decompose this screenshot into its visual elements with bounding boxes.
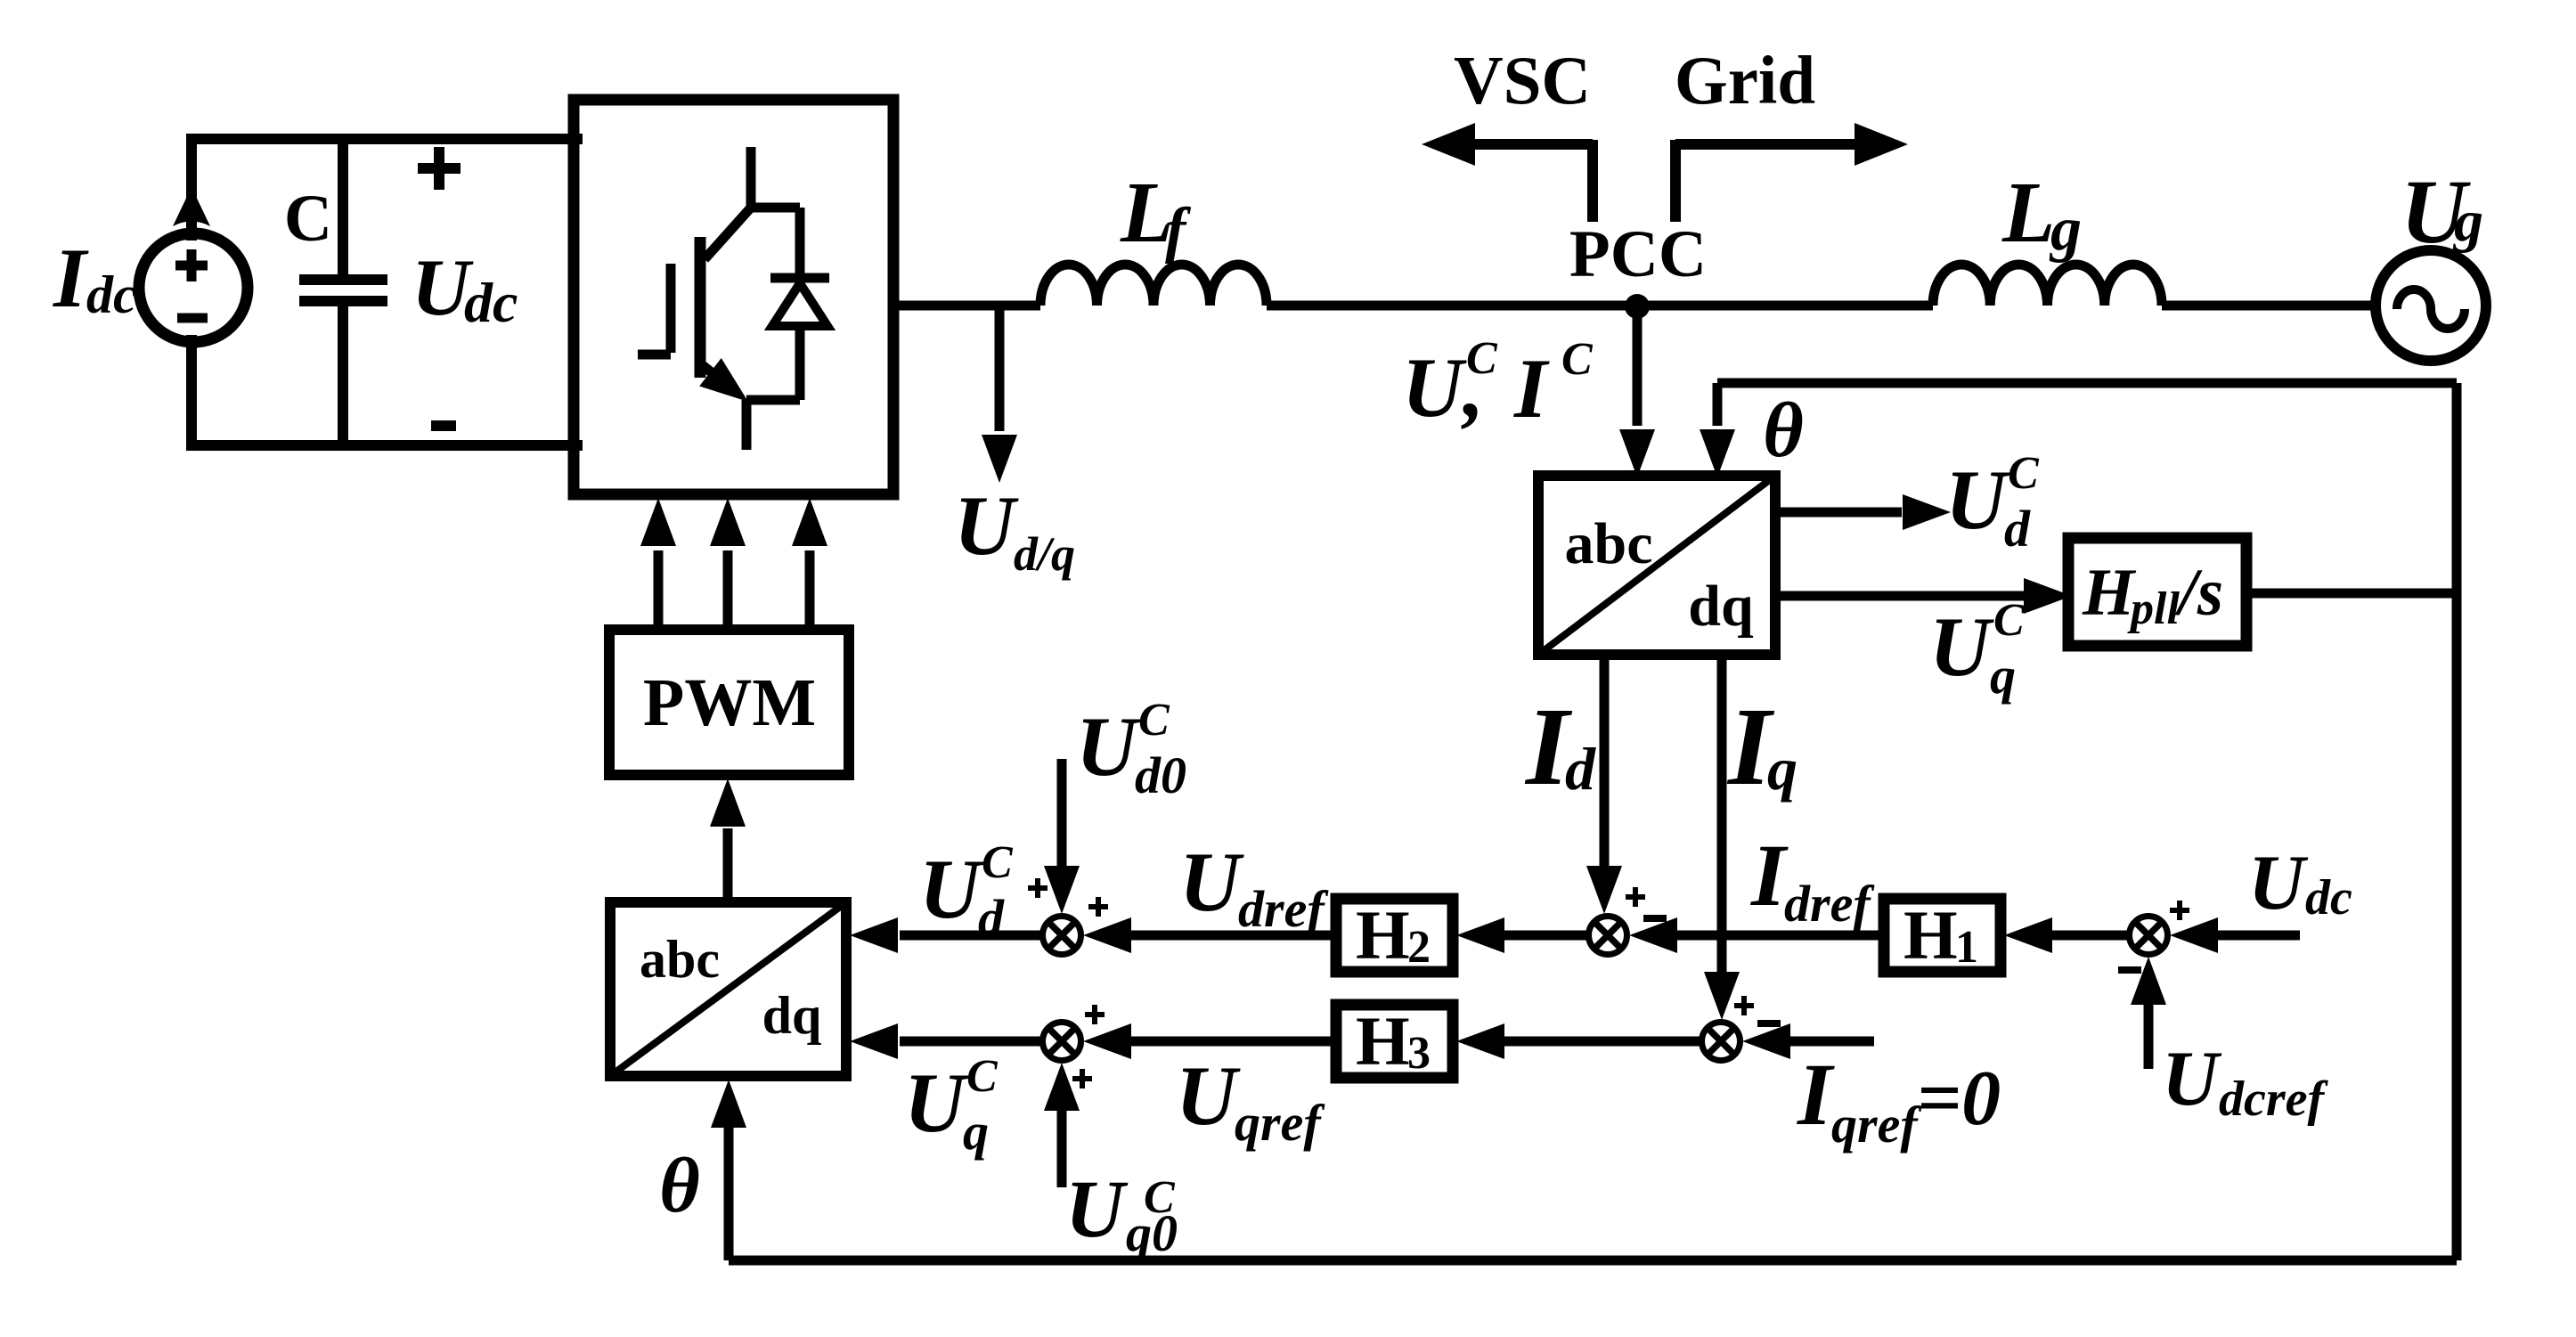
node PCC bbox=[1625, 294, 1650, 319]
svg-text:PCC: PCC bbox=[1569, 217, 1707, 291]
svg-text:=0: =0 bbox=[1917, 1056, 2001, 1142]
svg-text:U: U bbox=[1176, 1048, 1241, 1143]
label Idc bbox=[53, 231, 137, 325]
wire Lf to Lg bbox=[1267, 301, 1933, 311]
label plus J1 right bbox=[1088, 897, 1108, 917]
abc/dq transform modulator bbox=[610, 902, 846, 1076]
label plus J1 left bbox=[1028, 878, 1048, 898]
arrow abcdq to PWM bbox=[723, 828, 733, 902]
svg-text:C: C bbox=[982, 837, 1014, 888]
wire feedback theta rise bbox=[724, 1128, 734, 1260]
wire branch Udq bbox=[995, 306, 1005, 431]
svg-text:U: U bbox=[1076, 699, 1141, 794]
svg-text:C: C bbox=[966, 1051, 999, 1102]
gate arrow 1 PWM to VSC bbox=[654, 550, 664, 630]
wire dc left upper bbox=[186, 139, 197, 235]
svg-text:d: d bbox=[2004, 500, 2031, 558]
inductor Lf bbox=[1040, 265, 1267, 306]
svg-text:VSC: VSC bbox=[1454, 42, 1591, 118]
svg-text:dref: dref bbox=[1238, 880, 1329, 938]
summing junction J3 bbox=[1589, 917, 1627, 955]
svg-text:/s: /s bbox=[2174, 556, 2223, 630]
wire Hpll out bbox=[2246, 589, 2457, 599]
abc/dq transform PLL input bbox=[1538, 476, 1775, 655]
svg-text:g: g bbox=[2049, 195, 2082, 264]
label minus J5 bbox=[2118, 966, 2141, 974]
arrow VSC direction bbox=[1422, 123, 1593, 222]
label minus J4 bbox=[1757, 1020, 1781, 1027]
svg-text:I: I bbox=[1513, 341, 1550, 436]
svg-text:U: U bbox=[904, 1056, 969, 1150]
arrow J3 to H2 bbox=[1504, 931, 1588, 941]
gate arrow 3 PWM to VSC bbox=[805, 550, 815, 630]
svg-text:1: 1 bbox=[1955, 922, 1978, 973]
label plus J3 bbox=[1626, 887, 1645, 907]
label Lf bbox=[1120, 165, 1192, 265]
block PWM bbox=[609, 630, 849, 775]
wire theta feedback top bbox=[1717, 379, 2457, 388]
svg-text:U: U bbox=[1065, 1163, 1129, 1254]
arrow Udc into J5 bbox=[2218, 931, 2300, 941]
svg-text:C: C bbox=[2008, 448, 2040, 499]
label minus Udc bbox=[431, 420, 456, 431]
svg-text:C: C bbox=[1993, 595, 2026, 646]
svg-text:U: U bbox=[1179, 835, 1244, 929]
svg-text:C: C bbox=[1466, 333, 1498, 384]
label plus Udc bbox=[418, 147, 461, 190]
gate arrow 2 PWM to VSC bbox=[723, 550, 733, 630]
label plus J2 bottom bbox=[1072, 1069, 1092, 1088]
output Iq wire bbox=[1717, 655, 1727, 975]
arrow Grid direction bbox=[1675, 123, 1908, 222]
capacitor C bbox=[299, 139, 387, 445]
arrow Uq0 into J2 bbox=[1057, 1111, 1067, 1187]
block Hpll/s bbox=[2068, 538, 2246, 646]
svg-text:θ: θ bbox=[1763, 387, 1804, 474]
label Ud0C bbox=[1076, 695, 1186, 804]
svg-text:d: d bbox=[1565, 735, 1596, 803]
arrow Iqref into J4 bbox=[1790, 1037, 1874, 1047]
label Id bbox=[1524, 686, 1596, 809]
svg-text:U: U bbox=[954, 478, 1019, 573]
wire feedback bottom bbox=[729, 1256, 2457, 1266]
wire dc left lower bbox=[186, 340, 197, 445]
arrow H3 to J2 bbox=[1129, 1037, 1336, 1047]
transistor IGBT bbox=[638, 147, 800, 450]
svg-text:abc: abc bbox=[640, 930, 720, 989]
label plus J4 bbox=[1734, 996, 1754, 1015]
svg-text:qref: qref bbox=[1831, 1096, 1922, 1154]
label plus J5 bbox=[2170, 901, 2189, 920]
svg-text:Grid: Grid bbox=[1675, 42, 1815, 118]
arrow Ud0 into J1 bbox=[1057, 759, 1067, 866]
svg-text:dq: dq bbox=[1688, 574, 1754, 639]
svg-text:dc: dc bbox=[464, 271, 518, 334]
svg-text:PWM: PWM bbox=[643, 665, 816, 740]
label Udref bbox=[1179, 835, 1329, 938]
label Iqref=0 bbox=[1797, 1045, 2001, 1154]
svg-text:2: 2 bbox=[1407, 922, 1431, 973]
summing junction J2 bbox=[1043, 1023, 1081, 1061]
svg-text:dc: dc bbox=[2305, 870, 2352, 925]
label minus J3 bbox=[1643, 915, 1667, 922]
arrow Udq down bbox=[982, 435, 1017, 483]
svg-text:abc: abc bbox=[1565, 511, 1653, 576]
output UqC to Hpll bbox=[1775, 591, 2024, 601]
block H3 bbox=[1336, 1002, 1453, 1080]
wire dc top bbox=[192, 134, 577, 144]
arrow J1 to abcdq bbox=[900, 931, 1042, 941]
arrow Udcref into J5 bbox=[2144, 1005, 2154, 1069]
block H1 bbox=[1884, 896, 2001, 974]
svg-text:I: I bbox=[53, 231, 89, 325]
svg-text:H: H bbox=[1356, 1002, 1410, 1080]
svg-text:C: C bbox=[1561, 334, 1594, 385]
svg-text:d0: d0 bbox=[1135, 746, 1186, 804]
svg-text:U: U bbox=[919, 842, 984, 936]
label Udcref bbox=[2162, 1036, 2329, 1127]
svg-text:dc: dc bbox=[86, 265, 137, 324]
svg-text:L: L bbox=[2001, 165, 2055, 260]
svg-text:q: q bbox=[1990, 647, 2016, 705]
wire Lg to Ug bbox=[2162, 301, 2376, 311]
svg-text:C: C bbox=[284, 182, 332, 256]
summing junction J5 bbox=[2130, 917, 2168, 955]
arrow H1 to J3 bbox=[1675, 931, 1884, 941]
output UdC arrow bbox=[1775, 508, 1902, 518]
svg-text:q: q bbox=[963, 1103, 989, 1161]
svg-text:U: U bbox=[2248, 840, 2309, 926]
label Uq0C bbox=[1065, 1163, 1178, 1262]
svg-text:3: 3 bbox=[1407, 1028, 1431, 1079]
inductor Lg bbox=[1933, 265, 2162, 306]
wire dc bottom bbox=[192, 440, 577, 451]
svg-text:g: g bbox=[2452, 189, 2483, 254]
label Ud/q bbox=[954, 478, 1075, 581]
label Ug bbox=[2401, 161, 2483, 263]
label U,C IC bbox=[1402, 333, 1594, 436]
label Uqref bbox=[1176, 1048, 1325, 1152]
label UdC bbox=[1945, 448, 2040, 558]
label UqC bbox=[1929, 595, 2026, 705]
wire VSC output bbox=[893, 301, 1040, 311]
svg-text:U: U bbox=[1945, 452, 2010, 547]
svg-text:dcref: dcref bbox=[2219, 1072, 2329, 1127]
svg-text:U: U bbox=[2162, 1036, 2222, 1122]
svg-text:H: H bbox=[2082, 556, 2137, 630]
arrow J4 to H3 bbox=[1504, 1037, 1701, 1047]
arrow J2 to abcdq bbox=[900, 1037, 1042, 1047]
svg-text:pll: pll bbox=[2127, 583, 2180, 634]
svg-text:dref: dref bbox=[1784, 875, 1875, 933]
label Lg bbox=[2001, 165, 2082, 264]
svg-text:θ: θ bbox=[659, 1143, 700, 1229]
label UdC row1 bbox=[919, 837, 1014, 947]
svg-text:d/q: d/q bbox=[1014, 527, 1075, 581]
summing junction J4 bbox=[1702, 1023, 1740, 1061]
svg-text:H: H bbox=[1356, 896, 1410, 974]
label UqC row2 bbox=[904, 1051, 999, 1161]
current source Idc bbox=[139, 187, 248, 342]
wire theta to abcdq bbox=[1713, 383, 1723, 426]
summing junction J1 bbox=[1043, 917, 1081, 955]
output Id wire bbox=[1600, 655, 1610, 869]
svg-text:q0: q0 bbox=[1126, 1204, 1178, 1262]
AC source Ug bbox=[2376, 250, 2486, 361]
svg-text:I: I bbox=[1797, 1045, 1835, 1144]
wire feedback right vertical bbox=[2452, 383, 2462, 1260]
label Iq bbox=[1726, 686, 1797, 809]
wire PCC to abcdq bbox=[1633, 306, 1643, 426]
svg-text:I: I bbox=[1750, 826, 1789, 925]
diode D1 bbox=[770, 208, 829, 400]
label Idref bbox=[1750, 826, 1875, 933]
arrow H2 to J1 bbox=[1129, 931, 1336, 941]
label Udc right bbox=[2248, 840, 2352, 926]
arrow J5 to H1 bbox=[2050, 931, 2129, 941]
svg-text:qref: qref bbox=[1235, 1094, 1325, 1152]
svg-text:q: q bbox=[1767, 735, 1797, 803]
svg-text:C: C bbox=[1138, 695, 1170, 746]
svg-text:U: U bbox=[1929, 599, 1994, 694]
svg-text:d: d bbox=[978, 889, 1005, 947]
svg-text:dq: dq bbox=[762, 986, 822, 1045]
block H2 bbox=[1336, 896, 1453, 974]
label plus J2 top bbox=[1085, 1005, 1105, 1024]
VSC converter box bbox=[574, 100, 893, 494]
label Udc bbox=[412, 242, 518, 334]
svg-text:H: H bbox=[1903, 896, 1958, 974]
